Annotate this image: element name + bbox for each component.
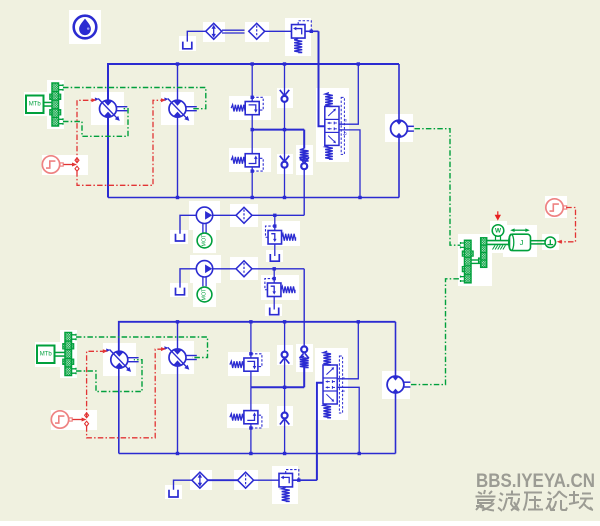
wire tank T1 to check diamond bbox=[187, 31, 205, 41]
node port b junction 2 bbox=[358, 452, 361, 455]
shaft GB3 to load bbox=[487, 240, 510, 242]
node charge junction 1 bbox=[273, 214, 276, 217]
node charge junction 2 bbox=[273, 267, 276, 270]
signal wire SIG1 output bbox=[64, 164, 75, 166]
node pump P4 junctions bbox=[176, 320, 179, 323]
icon backgrounds bbox=[69, 10, 101, 44]
tank T2 bbox=[176, 234, 185, 241]
relief valve RV1 bbox=[245, 102, 259, 115]
gearbox GB1 bbox=[26, 96, 44, 114]
pump P2 bbox=[169, 100, 186, 117]
wire CRV2 to tank T5 bbox=[273, 297, 275, 310]
gearbox GB3 bbox=[465, 240, 472, 282]
torque source TQ1 bbox=[545, 237, 556, 248]
wire motor M1 column bbox=[398, 64, 400, 120]
wire to charge relief CRV2 bbox=[273, 269, 275, 283]
speed sensor W1 bbox=[492, 225, 504, 237]
signal wire GB2 to pump P4 bbox=[76, 337, 208, 358]
relief valve RV2 bbox=[245, 154, 259, 167]
filter F2 bbox=[236, 207, 252, 223]
hydraulic motor M1 bbox=[391, 120, 408, 137]
svg-text:MTb: MTb bbox=[40, 352, 53, 358]
charge pump CP1 bbox=[196, 207, 212, 223]
wire valve DV2 port b bbox=[337, 387, 359, 453]
wire CP1 outlet bbox=[213, 214, 236, 216]
pump P4 bbox=[169, 349, 186, 366]
node check column bottom bbox=[283, 196, 286, 199]
wire CRV1 to tank T3 bbox=[274, 244, 276, 256]
directional valve DV2 bbox=[323, 365, 337, 404]
check valve CV4 bbox=[282, 413, 288, 419]
sensor marker bbox=[497, 211, 499, 215]
node port b junction bbox=[358, 196, 361, 199]
shaft J1 to torque source bbox=[531, 240, 546, 242]
relief valve BRV1 bbox=[292, 25, 306, 39]
relief valve RV4 bbox=[244, 411, 258, 424]
tank T5 bbox=[270, 308, 279, 315]
svg-text:MOT: MOT bbox=[202, 288, 208, 301]
tank T4 bbox=[176, 288, 185, 295]
svg-text:b: b bbox=[341, 389, 346, 392]
wire top bus bbox=[108, 64, 399, 100]
signal wire SIG3 to torque source bbox=[561, 208, 576, 242]
relief valve BRV2 bbox=[279, 473, 293, 487]
check valve CD2 bbox=[192, 472, 208, 488]
signal wire GB1 to pump P1 bbox=[63, 109, 128, 137]
signal wire motor M2 to gearbox GB3 bbox=[411, 279, 461, 385]
signal source SIG2 bbox=[51, 411, 68, 428]
charge pump CP2 bbox=[196, 261, 212, 277]
svg-text:W: W bbox=[495, 227, 502, 234]
wire check column CV3/CV4 bbox=[284, 322, 286, 454]
wire CP2 suction bbox=[180, 269, 196, 288]
signal source SIG1 bbox=[42, 156, 59, 173]
tank T6 bbox=[169, 490, 178, 497]
wire pump P2 column bbox=[177, 64, 179, 100]
wire relief column RV1/RV2 bbox=[251, 64, 253, 102]
wire suction line P-column bbox=[319, 31, 325, 126]
prime mover MOT2 bbox=[197, 287, 212, 302]
signal wire motor M1 to gearbox GB3 bbox=[415, 129, 461, 246]
charge relief valve CRV1 bbox=[268, 231, 282, 245]
wire bottom top bus bbox=[119, 322, 396, 351]
wire relief column RV3/RV4 bbox=[250, 322, 252, 358]
prime mover MOT1 bbox=[197, 233, 212, 248]
wire replenishing mid bus 2 bbox=[251, 386, 304, 388]
filter F3 bbox=[236, 261, 252, 277]
wire CP2 outlet bbox=[213, 268, 236, 270]
signal wire SIG2 output bbox=[73, 419, 84, 421]
wire BRV2 to P-column 2 bbox=[293, 479, 317, 481]
check valve CV2 bbox=[282, 162, 288, 168]
wire to charge relief CRV1 bbox=[274, 215, 276, 230]
pump P3 bbox=[111, 351, 128, 368]
check valve CV1 bbox=[282, 96, 288, 102]
wire replenishing mid bus bbox=[252, 129, 304, 131]
wire relief BRV1 to P-column bbox=[305, 30, 319, 32]
rotary load J1 bbox=[510, 234, 531, 250]
wire CD2 to filter F4 bbox=[208, 479, 238, 481]
wire F3 to spring check column bbox=[252, 268, 304, 270]
node mid bus 2 junction bbox=[283, 386, 286, 389]
pump P1 bbox=[100, 100, 117, 117]
hydraulic motor M2 bbox=[387, 376, 404, 393]
check valve CD1 bbox=[206, 23, 222, 39]
svg-text:BBS.IYEYA.CN: BBS.IYEYA.CN bbox=[476, 471, 595, 492]
signal wire GB1 to pump P2 bbox=[63, 88, 206, 109]
watermark chinese bbox=[476, 490, 594, 511]
gearbox GB2 bbox=[37, 346, 55, 364]
node pump P2 bottom junction bbox=[176, 196, 179, 199]
node check column nodes bbox=[283, 320, 286, 323]
wire valve DV2 port a bbox=[337, 322, 358, 379]
wire pump P3 column bbox=[118, 368, 120, 454]
svg-text:b: b bbox=[343, 132, 348, 135]
wire pump P1 column bbox=[107, 117, 109, 197]
relief valve RV3 bbox=[244, 358, 258, 371]
wire spring-check column SCV1 bbox=[303, 130, 305, 149]
wire pump P4 column bbox=[177, 322, 179, 349]
signal wire SIG2 to pump P4 control bbox=[87, 349, 162, 438]
signal wire SIG2 to pump P3 control bbox=[87, 351, 104, 418]
wire F2 to spring check bbox=[252, 214, 304, 216]
wire F4 to relief BRV2 bbox=[254, 479, 279, 481]
signal source SIG3 bbox=[546, 199, 563, 216]
tank T1 bbox=[183, 42, 192, 49]
wire tank T6 to check diamond bbox=[174, 480, 192, 490]
wire suction line P-column 2 bbox=[317, 383, 323, 481]
check valve CV3 bbox=[282, 352, 288, 358]
fluid properties icon bbox=[74, 16, 97, 39]
wire top bottom bus bbox=[108, 197, 399, 199]
svg-text:a: a bbox=[343, 119, 348, 122]
spring-loaded check valve SCV2 bbox=[301, 346, 307, 352]
node check column top bbox=[283, 62, 286, 65]
charge relief valve CRV2 bbox=[267, 283, 281, 297]
spring-loaded check valve SCV1 bbox=[300, 149, 309, 162]
wire motor M2 column bbox=[395, 322, 397, 377]
directional valve DV1 bbox=[325, 106, 339, 145]
node relief column nodes bbox=[249, 320, 252, 323]
node relief column bottom bbox=[251, 196, 254, 199]
svg-text:J: J bbox=[520, 238, 524, 247]
filter F1 bbox=[249, 23, 265, 39]
wire spring-check column SCV2 bbox=[303, 269, 305, 346]
wire check column CV1/CV2 bbox=[284, 64, 286, 130]
signal wire SIG1 to pump P2 control bbox=[77, 100, 162, 185]
node mid bus junctions bbox=[251, 128, 254, 131]
pipe segment bbox=[222, 29, 245, 31]
wire bottom bottom bus bbox=[119, 453, 396, 455]
node port a junction 2 bbox=[357, 320, 360, 323]
wire valve DV1 port a bbox=[339, 64, 358, 124]
wire valve DV1 port b bbox=[339, 130, 360, 198]
node pump P2 top junction bbox=[176, 62, 179, 65]
wire filter F1 to relief BRV1 bbox=[265, 30, 292, 32]
tank T3 bbox=[270, 254, 279, 261]
svg-text:MOT: MOT bbox=[202, 234, 208, 247]
node relief column top bbox=[251, 62, 254, 65]
signal wire GB2 to pump P3 bbox=[76, 360, 142, 392]
svg-text:MTb: MTb bbox=[29, 102, 42, 108]
wire CP1 suction bbox=[180, 215, 196, 234]
node port a junction bbox=[357, 62, 360, 65]
filter F4 bbox=[238, 472, 254, 488]
signal wire SIG1 to pump P1 control bbox=[77, 100, 93, 163]
